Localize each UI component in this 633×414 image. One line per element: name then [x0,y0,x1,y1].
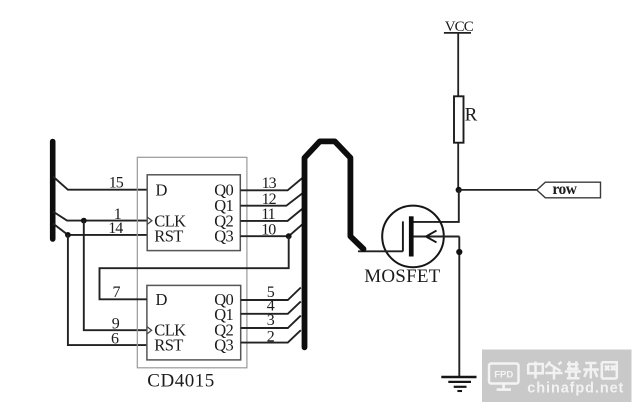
svg-text:row: row [552,181,577,198]
wire pin1 CLK1 [53,212,147,221]
mosfet Q1 [382,206,459,268]
svg-text:10: 10 [261,222,276,239]
svg-text:7: 7 [113,284,121,301]
watermark chinese 中华显示网 [528,361,617,379]
node CLK1 junction [81,218,87,224]
wire feedback Q3 to D2 pin7 [100,236,289,299]
node RST1 junction [65,232,71,238]
svg-text:CD4015: CD4015 [147,371,214,392]
svg-text:13: 13 [262,175,277,192]
ic U1A shift register [147,175,240,251]
bus middle column [305,141,364,347]
wire RST feeder to pin6 RST2 [68,235,147,345]
wire pin2 Q3 [241,330,301,342]
svg-text:R: R [465,104,478,125]
wire pin3 Q2 [241,316,301,328]
wire pin11 Q2 [240,208,302,221]
wire drain to node [413,190,458,222]
wire VCC to resistor [457,33,459,97]
wire pin13 Q0 [240,178,302,191]
resistor R [454,96,478,142]
svg-text:chinafpd.net: chinafpd.net [527,381,624,397]
wire pin4 Q1 [241,301,301,313]
wire resistor to row node [457,143,459,190]
watermark monitor icon FPD [489,364,519,390]
clock triangle U1A [147,217,152,224]
wire CLK feeder to pin9 CLK2 [84,221,147,331]
node Q3 junction [286,233,292,239]
ic U1B shift register [147,285,241,360]
svg-text:MOSFET: MOSFET [364,266,440,287]
wire pin15 D1 [53,177,147,190]
svg-text:3: 3 [267,312,275,329]
node source junction [456,249,462,255]
svg-text:Q3: Q3 [214,227,233,246]
svg-text:14: 14 [108,220,123,237]
power label VCC [444,19,474,35]
clock triangle U1B [147,327,152,334]
wire pin14 RST1 [53,224,147,235]
node row junction [456,187,462,193]
svg-text:RST: RST [154,227,183,246]
wire gate lead [358,250,403,252]
svg-text:D: D [156,290,168,309]
ground [441,377,476,391]
watermark panel [482,350,632,403]
wire source to ground [458,237,460,378]
ic outer box CD4015 [137,157,247,367]
svg-text:2: 2 [267,329,275,346]
wire row line [459,189,537,191]
svg-text:RST: RST [154,336,183,355]
wire pin12 Q1 [240,193,302,206]
net flag row [537,181,601,198]
wire pin5 Q0 [241,288,301,301]
bus left column [50,142,56,240]
svg-text:D: D [156,180,168,199]
svg-text:FPD: FPD [494,370,513,381]
wire pin10 Q3 [240,223,303,236]
svg-text:6: 6 [111,331,119,348]
svg-text:15: 15 [109,174,124,191]
svg-text:Q3: Q3 [214,336,233,355]
